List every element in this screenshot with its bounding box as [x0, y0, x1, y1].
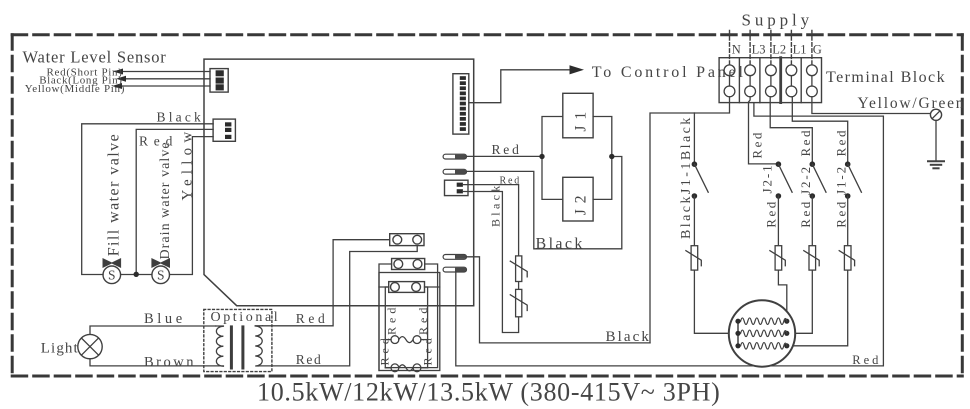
svg-text:G: G — [813, 42, 822, 56]
svg-text:J1-2: J1-2 — [834, 165, 849, 195]
svg-text:Drain water valve: Drain water valve — [158, 141, 173, 259]
svg-text:Light: Light — [41, 341, 79, 357]
svg-text:Red: Red — [852, 353, 881, 367]
svg-text:L3: L3 — [752, 42, 766, 56]
svg-text:Fill water valve: Fill water valve — [106, 133, 123, 256]
svg-text:Red: Red — [798, 199, 813, 227]
svg-text:S: S — [108, 268, 116, 283]
svg-text:Terminal Block: Terminal Block — [826, 69, 946, 86]
svg-text:L2: L2 — [772, 42, 786, 56]
svg-text:Black: Black — [606, 329, 652, 345]
svg-text:Red: Red — [798, 128, 813, 156]
svg-text:Red: Red — [378, 334, 392, 365]
svg-text:N: N — [732, 42, 741, 56]
svg-text:10.5kW/12kW/13.5kW (380-415V~: 10.5kW/12kW/13.5kW (380-415V~ 3PH) — [257, 378, 720, 407]
svg-text:Yellow(Middle Pin): Yellow(Middle Pin) — [25, 83, 125, 95]
svg-text:Red: Red — [420, 334, 434, 365]
svg-text:To Control Panel: To Control Panel — [592, 64, 746, 81]
svg-text:S: S — [157, 268, 165, 283]
svg-text:Red: Red — [296, 352, 323, 367]
svg-text:Water Level Sensor: Water Level Sensor — [23, 48, 167, 67]
svg-text:Yellow: Yellow — [180, 127, 196, 201]
svg-text:Black: Black — [536, 236, 585, 253]
svg-text:Black: Black — [157, 110, 205, 125]
svg-text:J2: J2 — [573, 190, 590, 216]
svg-text:Brown: Brown — [144, 355, 196, 371]
svg-text:Blue: Blue — [144, 311, 186, 327]
svg-text:L1: L1 — [793, 42, 807, 56]
svg-text:Yellow/Green: Yellow/Green — [858, 95, 966, 112]
svg-text:Red: Red — [385, 304, 399, 335]
svg-text:Red: Red — [764, 199, 779, 227]
svg-text:Supply: Supply — [742, 10, 814, 29]
svg-text:Red: Red — [834, 128, 849, 156]
svg-text:J2-1: J2-1 — [760, 164, 775, 194]
svg-text:Red: Red — [416, 304, 430, 335]
svg-text:Optional: Optional — [211, 310, 281, 325]
svg-text:Red: Red — [492, 142, 522, 157]
svg-text:Red: Red — [296, 311, 329, 326]
svg-text:Black: Black — [489, 183, 503, 228]
svg-text:BlackJ1-1Black: BlackJ1-1Black — [679, 115, 694, 239]
svg-text:J2-2: J2-2 — [798, 165, 813, 195]
svg-text:Red: Red — [750, 130, 765, 158]
svg-text:J1: J1 — [573, 106, 590, 132]
svg-text:Red: Red — [500, 176, 522, 187]
svg-text:Red: Red — [834, 199, 849, 227]
